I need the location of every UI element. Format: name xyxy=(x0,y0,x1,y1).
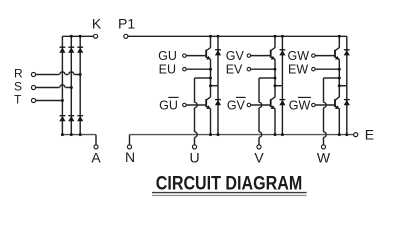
wire emitter U upper to mid-node xyxy=(210,59,212,97)
terminal K xyxy=(94,34,98,38)
junction rail/collector W xyxy=(338,35,341,38)
wire rectifier branch 2 xyxy=(70,36,72,134)
wire mid-node V to output xyxy=(259,77,275,79)
wire emitter sense EV xyxy=(251,68,275,70)
wire N stub xyxy=(129,135,131,145)
terminal GUbar xyxy=(183,103,187,107)
terminal S xyxy=(31,85,35,89)
wire rectifier top bus to K xyxy=(62,35,93,37)
terminal W xyxy=(321,145,325,149)
svg-text:E: E xyxy=(365,127,374,143)
wire base GWbar xyxy=(315,104,335,106)
wire rectifier bottom bus to A xyxy=(62,134,96,136)
wire input S xyxy=(36,87,60,89)
wire emitter U lower to N rail xyxy=(210,109,212,135)
diode D2 (upper arm) xyxy=(68,46,74,48)
terminal EV xyxy=(247,67,251,71)
junction rail/collector V xyxy=(274,35,277,38)
junction N rail/emitter U xyxy=(209,133,212,136)
junction top bus / branch 2 xyxy=(70,35,73,38)
wire output drop V xyxy=(258,78,260,102)
wire collector V upper xyxy=(274,36,276,47)
junction top bus / branch 3 xyxy=(79,35,82,38)
wire collector U upper xyxy=(210,36,212,47)
terminal GVbar xyxy=(247,103,251,107)
wire mid-node U to diodes xyxy=(211,85,219,87)
wire output drop W xyxy=(323,78,325,102)
terminal A xyxy=(94,145,98,149)
svg-text:S: S xyxy=(14,79,22,93)
wire base GV xyxy=(251,55,271,57)
svg-text:W: W xyxy=(317,150,331,166)
transistor Q3 (W upper) xyxy=(334,50,336,58)
svg-text:GV: GV xyxy=(226,49,245,63)
wire rectifier branch 1 xyxy=(61,36,63,134)
node S-branch junction xyxy=(70,86,73,89)
diode DF5 (V lower freewheel) xyxy=(280,99,286,101)
svg-text:EW: EW xyxy=(288,63,308,77)
svg-text:GW: GW xyxy=(287,49,309,63)
svg-text:U: U xyxy=(189,150,199,166)
wire P1 positive rail xyxy=(128,35,347,37)
junction mid-node diode W xyxy=(338,84,341,87)
wire base GVbar xyxy=(251,104,271,106)
terminal P1 xyxy=(124,34,128,38)
terminal R xyxy=(31,72,35,76)
terminal E xyxy=(354,133,358,137)
wire diode W lower xyxy=(346,86,348,135)
node T-branch junction xyxy=(61,99,64,102)
wire collector W upper xyxy=(338,36,340,47)
diode D1 (upper arm) xyxy=(60,46,66,48)
diode DF4 (U lower freewheel) xyxy=(215,99,221,101)
junction rail/diode V xyxy=(281,35,284,38)
terminal GW xyxy=(312,54,316,58)
junction N rail/diode W xyxy=(345,133,348,136)
wire input R xyxy=(36,74,60,76)
junction EU/emitter xyxy=(209,68,212,71)
svg-text:GU: GU xyxy=(158,49,177,63)
junction bottom bus / branch 3 xyxy=(79,133,82,136)
wire mid-node W to diodes xyxy=(339,85,347,87)
wire diode U lower xyxy=(217,86,219,135)
wire base GW xyxy=(315,55,335,57)
svg-text:P1: P1 xyxy=(118,16,135,32)
diode D4 (lower arm) xyxy=(60,115,66,117)
svg-text:A: A xyxy=(91,150,101,166)
wire diode U upper xyxy=(217,36,219,85)
diode D3 (upper arm) xyxy=(77,46,83,48)
terminal EU xyxy=(183,67,187,71)
junction N rail/diode U xyxy=(217,133,220,136)
junction N rail/emitter V xyxy=(274,133,277,136)
wire emitter V lower to N rail xyxy=(274,109,276,135)
svg-text:CIRCUIT DIAGRAM: CIRCUIT DIAGRAM xyxy=(156,173,303,195)
transistor Q6 (W lower) xyxy=(334,99,336,107)
wire diode V lower xyxy=(281,86,283,135)
junction N rail/emitter W xyxy=(338,133,341,136)
wire mid-node U to output xyxy=(195,77,211,79)
wire emitter V upper to mid-node xyxy=(274,59,276,97)
terminal EW xyxy=(312,67,316,71)
terminal N xyxy=(127,145,131,149)
junction mid-node diode V xyxy=(274,84,277,87)
svg-text:N: N xyxy=(125,149,135,165)
junction EV/emitter xyxy=(274,68,277,71)
junction bottom bus / branch 2 xyxy=(70,133,73,136)
wire mid-node V to diodes xyxy=(275,85,282,87)
transistor Q2 (V upper) xyxy=(270,50,272,58)
svg-text:K: K xyxy=(92,16,102,32)
svg-text:T: T xyxy=(14,92,22,106)
transistor Q4 (U lower) xyxy=(205,99,207,107)
transistor Q1 (U upper) xyxy=(205,50,207,58)
wire input T xyxy=(36,100,63,102)
wire diode W upper xyxy=(346,36,348,85)
junction mid-node W xyxy=(338,77,341,80)
junction EW/emitter xyxy=(338,68,341,71)
svg-text:EV: EV xyxy=(226,63,243,77)
terminal GWbar xyxy=(312,103,316,107)
node R-branch junction xyxy=(79,73,82,76)
terminal V xyxy=(257,145,261,149)
wire rectifier branch 3 xyxy=(79,36,81,134)
diode D5 (lower arm) xyxy=(68,115,74,117)
wire emitter W upper to mid-node xyxy=(338,59,340,97)
wire diode V upper xyxy=(281,36,283,85)
junction rail/collector U xyxy=(209,35,212,38)
junction bottom bus / branch 1 xyxy=(61,133,64,136)
diode DF1 (U upper freewheel) xyxy=(215,49,221,51)
transistor Q5 (V lower) xyxy=(270,99,272,107)
svg-text:GV: GV xyxy=(227,99,246,113)
terminal GU xyxy=(183,54,187,58)
wire emitter W lower to N rail xyxy=(338,109,340,135)
wire negative rail N to E xyxy=(130,134,354,136)
svg-text:R: R xyxy=(14,66,23,80)
diode DF3 (W upper freewheel) xyxy=(344,49,350,51)
svg-text:EU: EU xyxy=(159,63,176,77)
junction mid-node diode U xyxy=(209,84,212,87)
terminal GV xyxy=(247,54,251,58)
wire mid-node W to output xyxy=(324,77,340,79)
junction mid-node V xyxy=(274,77,277,80)
diode DF2 (V upper freewheel) xyxy=(280,49,286,51)
diode D6 (lower arm) xyxy=(77,115,83,117)
junction mid-node U xyxy=(209,77,212,80)
terminal T xyxy=(31,98,35,102)
junction rail/diode U xyxy=(217,35,220,38)
wire emitter sense EW xyxy=(315,68,339,70)
wire base GU xyxy=(186,55,206,57)
wire base GUbar xyxy=(186,104,206,106)
junction N rail/diode V xyxy=(281,133,284,136)
terminal U xyxy=(192,145,196,149)
title underline xyxy=(152,192,307,194)
svg-text:GW: GW xyxy=(289,99,311,113)
svg-text:V: V xyxy=(254,150,264,166)
svg-text:GU: GU xyxy=(159,99,178,113)
wire output drop U xyxy=(194,78,196,102)
diode DF6 (W lower freewheel) xyxy=(344,99,350,101)
wire emitter sense EU xyxy=(186,68,210,70)
